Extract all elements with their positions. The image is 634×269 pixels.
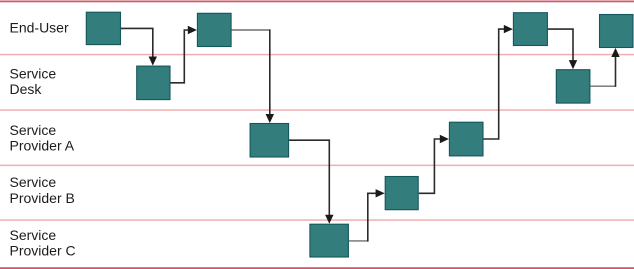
svg-text:Desk: Desk [10,81,43,97]
lane separator 1 [0,54,634,56]
arrowhead into box7 left [440,135,449,143]
box 8 End-User step 3 [513,13,547,46]
svg-text:Service: Service [10,174,57,190]
wire box1 to box2 [121,28,153,57]
lane separator 2 [0,109,634,111]
box 6 Provider B step [385,177,418,210]
box 4 Provider A step 1 [250,124,289,158]
svg-text:Provider A: Provider A [10,138,75,154]
arrowhead into box9 top [569,60,577,69]
wire box6 to box7 [419,139,442,193]
box 2 Service Desk step [137,66,170,100]
box 3 End-User step 2 [197,13,231,46]
box 10 End-User step 4 [600,15,634,48]
wire box8 to box9 [548,29,573,61]
top border line [0,1,634,3]
wire box7 to box8 [484,29,506,139]
wire box2 to box3 [171,30,190,83]
svg-text:End-User: End-User [10,20,69,36]
svg-text:Service: Service [10,227,57,243]
box 7 Provider A step 2 [449,122,483,156]
box 5 Provider C step [310,224,349,257]
svg-text:Provider C: Provider C [10,242,76,258]
wire box5 to box6 [349,240,367,242]
svg-text:Provider B: Provider B [10,190,75,206]
arrowhead into box8 left [504,25,513,33]
wire box9 to box10 [590,85,615,87]
wire box4 to box5 [289,140,329,216]
svg-text:Service: Service [10,66,57,82]
box 1 End-User step 1 [86,12,120,44]
arrowhead into box4 top [266,114,274,123]
arrowhead into box2 top [149,57,157,66]
arrowhead into box5 top [325,215,333,224]
wire box3 to box4 [232,29,270,31]
svg-text:Service: Service [10,122,57,138]
arrowhead into box3 left [188,26,197,34]
arrowhead into box6 left [376,189,385,197]
lane separator 4 [0,219,634,221]
arrowhead into box10 bottom [611,48,619,57]
lane separator 3 [0,165,634,167]
box 9 Service Desk step 2 [556,70,590,103]
bottom border line [0,267,634,269]
